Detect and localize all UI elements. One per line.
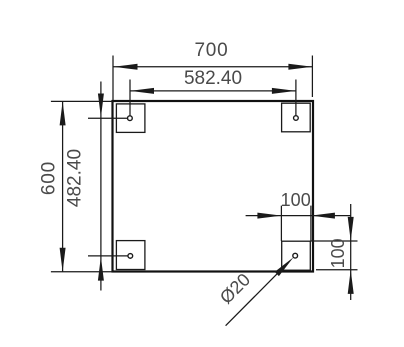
dimension 100 horizontal line <box>246 215 351 217</box>
dimension 600 line <box>62 101 64 271</box>
dimension 600 arrow bottom <box>60 248 66 272</box>
dimension 100 horizontal extension line right <box>310 206 312 241</box>
dimension 100 horizontal arrow left <box>257 213 281 219</box>
hole bottom-left <box>128 254 133 259</box>
dimension 700 extension line right <box>311 56 313 98</box>
dimension 482.40 extension line top <box>88 117 128 119</box>
hole bottom-right <box>293 253 298 258</box>
plate outline <box>113 101 314 272</box>
dimension 582.40 extension line left <box>129 80 131 116</box>
svg-text:700: 700 <box>194 40 228 61</box>
pad top-left <box>116 104 144 132</box>
dimension 482.40 arrow bottom <box>98 257 104 281</box>
dimension 100 horizontal arrow right <box>311 213 335 219</box>
dimension 100 vertical arrow top <box>348 217 354 241</box>
dimension 582.40 line <box>130 90 296 92</box>
dimension 482.40 extension line bottom <box>88 255 128 257</box>
svg-text:100: 100 <box>281 190 311 210</box>
hole top-left <box>128 116 133 121</box>
svg-text:100: 100 <box>328 238 348 268</box>
dimension 100 vertical line <box>350 204 352 300</box>
dimension 582.40 extension line right <box>295 80 297 116</box>
pad top-right <box>282 103 311 132</box>
dimension 100 vertical extension line bottom <box>316 269 358 271</box>
svg-text:582.40: 582.40 <box>184 68 242 89</box>
dimension 482.40 arrow top <box>98 94 104 118</box>
dimension 600 arrow top <box>60 101 66 125</box>
leader arrow <box>275 257 294 276</box>
dimension 100 horizontal extension line left <box>280 206 282 241</box>
leader line diameter 20 <box>226 273 278 325</box>
svg-text:600: 600 <box>39 161 60 195</box>
dimension 600 extension line bottom <box>51 271 113 273</box>
dimension 600 extension line top <box>51 100 113 102</box>
dimension 700 arrow right <box>288 64 312 70</box>
dimension 582.40 arrow right <box>272 88 296 94</box>
dimension 482.40 line <box>100 82 102 291</box>
svg-text:482.40: 482.40 <box>65 149 86 207</box>
dimension 700 extension line left <box>112 56 114 101</box>
pad bottom-right <box>282 241 311 270</box>
hole top-right <box>294 116 299 121</box>
dimension 100 vertical arrow bottom <box>348 270 354 294</box>
dimension 700 arrow left <box>114 64 138 70</box>
dimension 582.40 arrow left <box>130 88 154 94</box>
pad bottom-left <box>116 241 144 270</box>
dimension 100 vertical extension line top <box>311 240 358 242</box>
dimension 700 line <box>114 66 313 68</box>
